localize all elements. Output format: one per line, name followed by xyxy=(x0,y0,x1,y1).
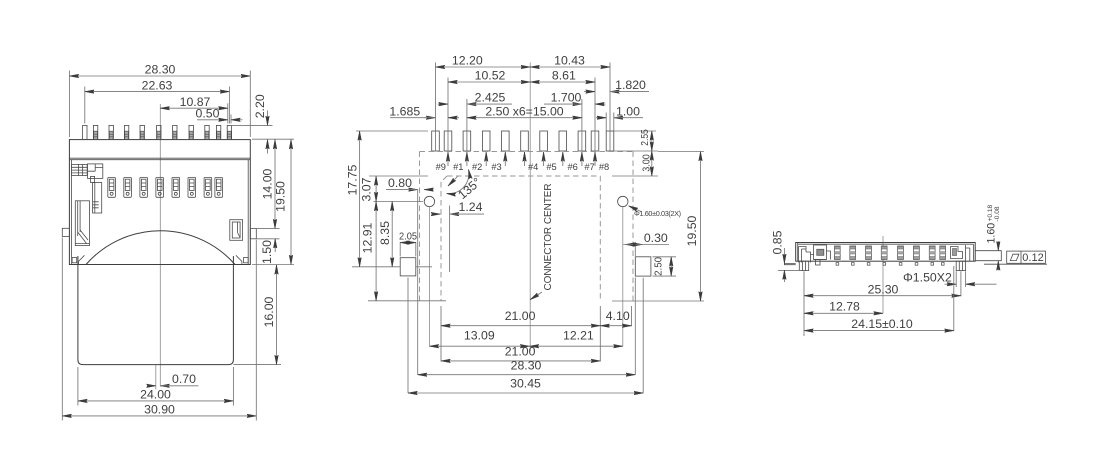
dim 10.52 xyxy=(448,81,530,83)
right-end bracket xyxy=(951,245,970,261)
svg-text:12.78: 12.78 xyxy=(829,299,860,313)
svg-text:0.85: 0.85 xyxy=(770,230,784,254)
flatness callout 0.12 xyxy=(1007,251,1046,264)
left side pad xyxy=(400,258,416,276)
right mounting post xyxy=(956,261,965,270)
dim 10.43 xyxy=(530,66,610,68)
right pad-height extensions xyxy=(612,131,658,176)
card centerline xyxy=(155,365,157,390)
svg-text:0.80: 0.80 xyxy=(388,176,412,190)
contact row (8 contacts in section) xyxy=(834,246,945,265)
svg-text:0.12: 0.12 xyxy=(1022,252,1043,264)
dim 3.07 xyxy=(375,176,377,202)
hole left (phi 1.60) xyxy=(424,196,434,206)
hole right (phi 1.60) xyxy=(618,196,628,206)
svg-text:8.61: 8.61 xyxy=(552,68,576,82)
svg-text:12.91: 12.91 xyxy=(360,222,374,253)
dim 1.820 xyxy=(584,78,649,92)
dim 8.61 xyxy=(530,81,595,83)
dim 0.85 xyxy=(770,230,800,282)
dim 12.91 xyxy=(375,202,377,301)
pin number labels xyxy=(436,162,610,172)
dim 0.50 xyxy=(196,106,243,123)
svg-text:24.15±0.10: 24.15±0.10 xyxy=(851,317,913,331)
svg-text:#6: #6 xyxy=(568,162,578,172)
dim 1.50 (vertical) xyxy=(251,229,280,264)
pad center extensions xyxy=(408,278,643,394)
hole center extension lines xyxy=(429,207,622,346)
svg-text:1.685: 1.685 xyxy=(389,104,420,118)
dim 21.00 row2 xyxy=(441,360,600,362)
dim 2.55 xyxy=(651,131,653,151)
dim 14.00 (vertical) xyxy=(252,139,294,228)
svg-text:1.700: 1.700 xyxy=(551,91,582,105)
svg-text:0.70: 0.70 xyxy=(172,372,196,386)
dim 1.700 xyxy=(544,91,606,105)
svg-text:12.21: 12.21 xyxy=(563,329,594,343)
svg-text:25.30: 25.30 xyxy=(868,282,899,296)
flange bottom lines xyxy=(69,158,250,160)
dim 30.45 xyxy=(408,392,643,394)
svg-text:#3: #3 xyxy=(491,162,501,172)
right side stopper box xyxy=(230,220,243,241)
svg-text:2.50 x6=15.00: 2.50 x6=15.00 xyxy=(485,104,563,118)
svg-text:28.30: 28.30 xyxy=(511,358,542,372)
centerline xyxy=(882,236,884,313)
svg-text:1.00: 1.00 xyxy=(616,104,640,118)
svg-text:30.45: 30.45 xyxy=(510,376,541,390)
body outline xyxy=(69,140,250,265)
svg-text:22.63: 22.63 xyxy=(142,78,173,92)
svg-text:#1: #1 xyxy=(453,162,463,172)
svg-text:19.50: 19.50 xyxy=(685,215,699,246)
svg-text:1.50: 1.50 xyxy=(260,240,274,264)
CONNECTOR CENTER note xyxy=(530,184,554,300)
svg-text:3.07: 3.07 xyxy=(360,177,374,201)
dim 1.685 xyxy=(389,104,459,118)
latch slider bar xyxy=(93,183,102,214)
right side pad xyxy=(635,257,651,276)
inserted card outline xyxy=(78,256,234,365)
dim 19.50 (vertical) xyxy=(252,140,294,265)
connector centerline xyxy=(529,63,531,352)
inner walls xyxy=(72,160,249,265)
dim 2.20 (vertical, right of pins) xyxy=(231,94,273,153)
svg-text:30.90: 30.90 xyxy=(144,402,175,416)
bottom-right corner details xyxy=(236,255,248,264)
right solder tab xyxy=(975,251,1001,261)
inner dashed slot outline with chamfer xyxy=(441,176,600,301)
dim 22.63 xyxy=(85,78,230,123)
bottom dims extensions xyxy=(418,189,636,375)
svg-text:#4: #4 xyxy=(528,162,538,172)
left mounting tab xyxy=(62,228,69,236)
dim 1.60 +0.18/-0.08 xyxy=(986,204,1002,270)
dim 4.10 xyxy=(600,325,631,327)
right mounting tab xyxy=(250,229,256,239)
dim 2.05 xyxy=(399,231,417,257)
svg-text:28.30: 28.30 xyxy=(145,63,176,77)
svg-text:2.20: 2.20 xyxy=(253,94,267,118)
svg-text:#9: #9 xyxy=(436,162,446,172)
seating plane line xyxy=(984,263,1047,265)
pin row (11 terminals on top) xyxy=(83,125,232,139)
dim 28.30 (top) xyxy=(69,63,250,137)
dim 28.30 (middle) xyxy=(418,374,636,376)
svg-text:13.09: 13.09 xyxy=(464,329,495,343)
svg-text:CONNECTOR CENTER: CONNECTOR CENTER xyxy=(543,184,554,291)
left vertical dims extensions xyxy=(352,131,446,301)
svg-text:#5: #5 xyxy=(546,162,556,172)
svg-text:#2: #2 xyxy=(472,162,482,172)
svg-text:0.30: 0.30 xyxy=(644,231,668,245)
svg-text:-0.08: -0.08 xyxy=(994,206,1001,221)
svg-text:0.50: 0.50 xyxy=(196,106,220,120)
svg-text:12.20: 12.20 xyxy=(452,53,483,67)
svg-text:2.50: 2.50 xyxy=(653,257,665,276)
svg-text:1.24: 1.24 xyxy=(459,200,483,214)
svg-text:17.75: 17.75 xyxy=(346,164,360,195)
svg-text:Φ1.60±0.03(2X): Φ1.60±0.03(2X) xyxy=(634,209,681,218)
svg-text:Φ1.50X2: Φ1.50X2 xyxy=(903,271,952,285)
phi1.60 hole note with leader xyxy=(629,206,681,218)
svg-text:24.00: 24.00 xyxy=(140,387,171,401)
outer dashed body outline xyxy=(420,152,634,302)
dim 12.21 xyxy=(530,345,623,347)
top dim extensions xyxy=(436,63,614,152)
dim 12.78 xyxy=(804,299,883,313)
dim 30.90 (bottom) xyxy=(62,238,256,421)
pin number leader arrows xyxy=(448,152,595,166)
dim 12.20 xyxy=(436,66,531,68)
bottom-left corner details xyxy=(72,255,84,264)
svg-text:2.05: 2.05 xyxy=(399,231,417,243)
135 degree chamfer note xyxy=(447,170,484,203)
arch cutout xyxy=(86,231,235,265)
svg-text:19.50: 19.50 xyxy=(273,181,287,212)
svg-text:10.43: 10.43 xyxy=(554,53,585,67)
svg-text:16.00: 16.00 xyxy=(262,296,276,327)
dim 13.09 xyxy=(429,345,529,347)
dim 10.87 xyxy=(160,95,228,124)
svg-text:10.52: 10.52 xyxy=(475,68,506,82)
eject spring block xyxy=(75,201,89,246)
dim 0.30 xyxy=(623,231,669,256)
svg-text:2.425: 2.425 xyxy=(475,91,506,105)
body profile xyxy=(796,243,976,262)
dim 3.00 xyxy=(651,151,653,176)
svg-text:#7: #7 xyxy=(584,162,594,172)
dim 24.15+-0.10 xyxy=(804,266,954,331)
dim 1.24 xyxy=(432,200,484,214)
svg-text:21.00: 21.00 xyxy=(505,345,536,359)
dim 2.425 xyxy=(438,91,513,105)
svg-text:1.60: 1.60 xyxy=(986,223,998,244)
dim 19.50 (right, vertical) xyxy=(612,152,704,302)
left solder tab xyxy=(784,263,795,264)
dim 21.00 row1 xyxy=(441,325,600,327)
dim 16.00 (vertical) xyxy=(233,265,281,365)
dim 0.80 xyxy=(386,176,434,190)
centerline main xyxy=(159,104,161,387)
svg-text:1.820: 1.820 xyxy=(615,78,646,92)
left mounting post xyxy=(799,261,808,270)
dim 2.50 (right pad height) xyxy=(653,257,677,276)
dim 24.00 (bottom) xyxy=(78,367,234,406)
svg-text:21.00: 21.00 xyxy=(505,309,536,323)
svg-text:4.10: 4.10 xyxy=(606,309,630,323)
latch notch xyxy=(91,176,95,182)
dim 0.70 (bottom) xyxy=(149,372,199,386)
svg-text:8.35: 8.35 xyxy=(378,221,392,245)
contact windows (8) xyxy=(108,177,223,197)
svg-text:+0.18: +0.18 xyxy=(987,204,994,221)
dim 1.00 xyxy=(596,104,643,118)
pads row (11 solder pads) xyxy=(432,131,614,151)
svg-text:3.00: 3.00 xyxy=(641,154,653,172)
dim phi 1.50 X2 xyxy=(903,271,997,287)
dim 2.50x6=15.00 xyxy=(467,104,582,118)
latch comb (top-left) xyxy=(72,165,88,176)
dim 25.30 xyxy=(804,271,961,336)
pin inner shading xyxy=(94,131,232,139)
left-end contact assembly xyxy=(799,245,831,265)
dim 8.35 xyxy=(391,202,393,267)
svg-text:2.55: 2.55 xyxy=(639,129,651,146)
dim 17.75 xyxy=(359,131,361,267)
svg-text:#8: #8 xyxy=(599,162,609,172)
latch L-bracket xyxy=(88,164,103,179)
